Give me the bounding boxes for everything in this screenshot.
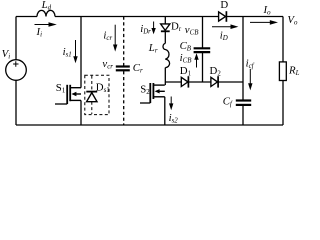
diode Dr [161, 24, 170, 31]
wire arrow icr [113, 25, 117, 52]
diode D2 [211, 76, 218, 87]
wire top rail left segment [16, 16, 37, 18]
svg-text:S2: S2 [140, 83, 150, 96]
diode Ds1 (body diode, dashed box) [85, 75, 109, 114]
wire Lr to node A [164, 68, 166, 86]
wire left rail upper [15, 17, 17, 60]
svg-text:Dr: Dr [171, 20, 182, 33]
svg-text:Cf: Cf [223, 95, 233, 108]
wire right rail lower [282, 81, 284, 126]
wire Dr to Lr [164, 31, 166, 43]
svg-text:iCB: iCB [180, 52, 193, 65]
svg-text:Ds1: Ds1 [96, 81, 110, 94]
wire Cf branch upper [242, 17, 244, 100]
wire left rail lower [15, 80, 17, 125]
wire arrow iDr [151, 22, 155, 35]
wire right rail upper [282, 17, 284, 62]
svg-text:Cr: Cr [133, 62, 143, 75]
wire top rail middle [55, 16, 219, 18]
capacitor CB [194, 48, 211, 52]
wire D2 to Cf branch [218, 81, 243, 83]
capacitor Cf [236, 101, 251, 105]
svg-text:D2: D2 [210, 65, 222, 78]
svg-text:icf: icf [246, 57, 255, 70]
wire arrow is2 [169, 97, 173, 111]
wire S1 drain [80, 17, 82, 88]
transistor S2 [140, 83, 165, 103]
wire arrow Io [250, 20, 278, 25]
svg-text:RL: RL [288, 64, 300, 77]
capacitor Cr [116, 67, 130, 71]
wire arrow Ii [35, 22, 57, 27]
wire arrow iD [212, 24, 238, 29]
svg-text:Ld: Ld [41, 0, 52, 11]
svg-text:iD: iD [220, 29, 228, 42]
svg-text:vCB: vCB [185, 24, 199, 37]
svg-text:is1: is1 [63, 46, 72, 59]
transistor S2 channel arrow [155, 89, 160, 93]
wire S1 source [80, 100, 82, 125]
wire top rail right [227, 16, 283, 18]
svg-text:D1: D1 [180, 65, 192, 78]
diode D [219, 11, 227, 22]
svg-text:CB: CB [180, 40, 192, 53]
svg-text:iDr: iDr [140, 23, 151, 36]
svg-text:S1: S1 [56, 82, 66, 95]
svg-text:Vi: Vi [2, 48, 11, 61]
wire bottom rail [16, 124, 283, 126]
wire arrow is1 [73, 40, 77, 63]
transistor S1 channel arrow [71, 92, 76, 96]
node plus sign of source [13, 61, 18, 66]
svg-text:Lr: Lr [148, 42, 158, 55]
wire arrow icf [248, 69, 252, 91]
svg-text:Ii: Ii [36, 26, 43, 39]
svg-text:icr: icr [103, 29, 112, 42]
wire D1 to D2 [188, 81, 211, 83]
wire S2 source [164, 97, 166, 125]
svg-text:Io: Io [263, 4, 272, 16]
svg-text:is2: is2 [169, 112, 179, 125]
inductor Ld [37, 10, 55, 16]
svg-text:vcr: vcr [102, 58, 113, 71]
svg-text:Vo: Vo [287, 14, 298, 27]
resistor RL [279, 62, 286, 81]
svg-text:D: D [220, 0, 228, 11]
wire Dr branch top [164, 17, 166, 25]
wire CB branch lower [202, 53, 204, 82]
wire node A to D1 [165, 81, 181, 83]
wire arrow iCB [194, 53, 198, 67]
wire CB branch upper [202, 17, 204, 48]
capacitor Cr dashed branch [123, 17, 125, 66]
wire Cf branch lower [242, 106, 244, 125]
inductor Lr [163, 44, 170, 68]
voltage source Vi [6, 60, 27, 81]
diode D1 [181, 76, 188, 87]
transistor S1 [55, 85, 81, 104]
